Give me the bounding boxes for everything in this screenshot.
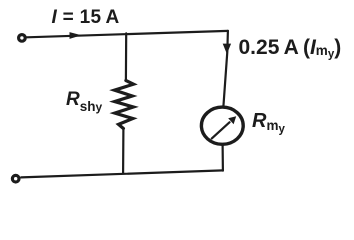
label Rsh [66, 89, 102, 114]
wire resistor branch top lead [125, 33, 127, 80]
meter needle [212, 122, 230, 138]
terminal bottom-left [12, 175, 19, 182]
wire resistor branch bottom lead [122, 129, 125, 173]
wire right branch upper [223, 31, 228, 107]
meter U1 body [201, 107, 243, 144]
arrow current Im downward [223, 44, 231, 54]
label Rm [252, 110, 285, 136]
wire meter bottom stem [222, 144, 224, 170]
arrow current I on top wire [70, 32, 82, 39]
label I = 15 A [52, 7, 120, 29]
wire top horizontal [27, 31, 228, 37]
label 0.25 A (Im) [239, 36, 342, 61]
wire bottom horizontal [21, 170, 223, 177]
terminal top-left [19, 35, 26, 42]
resistor Rsh [114, 81, 133, 129]
